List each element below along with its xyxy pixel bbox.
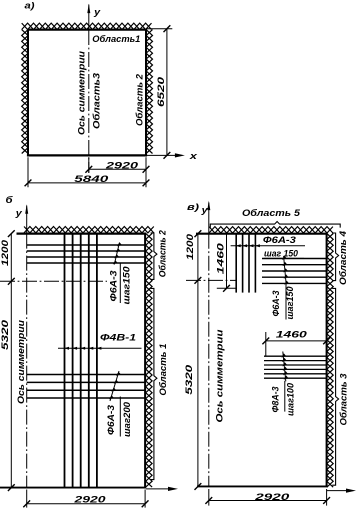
svg-text:5320: 5320 [184,365,194,395]
label shelf middle group (fig v) [285,285,287,320]
dimension line 1200-5320 (fig v) [197,234,199,487]
svg-text:1200: 1200 [185,234,195,260]
region bracket Область 2 (fig b) [151,233,157,280]
slab a outline [27,29,147,31]
svg-text:2920: 2920 [73,495,107,505]
leader line Ф4В-1 [58,347,142,349]
svg-text:5840: 5840 [74,174,109,184]
svg-text:Ф4В-1: Ф4В-1 [100,333,136,343]
svg-text:Ф6А-3: Ф6А-3 [263,235,296,245]
region bracket Область 5 (fig v) [210,222,340,228]
label shelf bottom group (fig b) [119,397,121,437]
slab b bottom edge [0,487,146,489]
horizontal rebar group top (fig b) [27,244,145,246]
slab a left edge hatch [22,30,28,154]
axis y (fig b) [26,206,28,234]
svg-text:шаг150: шаг150 [121,267,131,305]
svg-text:Область3: Область3 [92,73,102,129]
dimension 1460 horizontal (fig v) [266,340,327,342]
dimension line 1200-5320 (fig b) [10,234,12,488]
svg-text:Область1: Область1 [92,34,140,44]
dimension 1460 vertical line (fig v) [226,234,228,289]
svg-text:Область 1: Область 1 [158,344,168,396]
slab b right edge [144,233,146,488]
axis x (fig b) [146,488,174,490]
svg-text:у: у [93,6,101,17]
slab v symmetry axis edge [208,234,210,487]
leader line vertical group (fig v) [231,245,305,247]
svg-text:у: у [15,207,23,218]
label shelf bottom group (fig v) [284,381,286,412]
svg-text:Ф6А-3: Ф6А-3 [271,291,281,317]
slab b top edge [17,233,147,235]
svg-text:Область 5: Область 5 [242,208,301,218]
svg-text:5320: 5320 [0,320,10,350]
svg-text:шаг100: шаг100 [285,383,295,416]
slab v top edge [196,233,328,235]
svg-text:Область 2: Область 2 [135,73,145,126]
axis x (fig a) [146,154,182,156]
svg-text:а): а) [25,0,35,10]
slab b right edge hatch [146,233,152,487]
svg-text:Область 4: Область 4 [338,231,348,285]
svg-text:Ф6А-3: Ф6А-3 [109,271,119,302]
region boundary dash-dot (fig b) [0,280,107,282]
horizontal rebar group bottom (fig b) [27,374,145,376]
slab b symmetry axis edge [26,234,28,488]
dimension 2920 line (fig b) [27,503,145,505]
slab b top edge hatch [24,227,154,233]
region bracket Область 3 (fig v) [332,288,338,485]
slab a top edge hatch [22,23,152,29]
region bracket Область 4 (fig v) [332,233,338,281]
svg-text:1460: 1460 [276,329,308,339]
region bracket Область 1 (fig b) [151,288,157,479]
svg-text:6520: 6520 [156,76,166,107]
svg-text:шаг150: шаг150 [285,287,295,320]
svg-text:Ось симметрии: Ось симметрии [215,329,225,422]
svg-text:2920: 2920 [104,160,139,170]
extension lines bottom (fig a) [27,157,29,187]
svg-text:шаг 150: шаг 150 [264,248,299,258]
symmetry axis line (fig a) [88,30,90,173]
dimension 2920 line (fig v) [209,500,327,502]
svg-text:Ось симметрии: Ось симметрии [76,51,86,135]
svg-text:Ф6А-3: Ф6А-3 [106,405,116,435]
svg-text:Ось симметрии: Ось симметрии [16,320,26,404]
horizontal rebar group middle (fig v) [262,258,327,260]
leader diagonal top group (fig b) [114,243,119,265]
extension lines bottom (fig b) [26,490,28,508]
extension lines bottom (fig v) [208,489,210,506]
axis y (fig a) [88,5,90,31]
slab v bottom edge [197,485,328,487]
svg-text:у: у [200,204,208,215]
svg-text:Ф8А-3: Ф8А-3 [270,387,280,413]
vertical rebar group (fig v) [235,234,237,293]
region boundary dash-dot (fig v) [186,279,236,281]
leader diagonal bottom group (fig b) [110,371,119,401]
svg-text:x: x [189,150,198,161]
svg-text:1460: 1460 [216,243,226,274]
label shelf top group (fig b) [119,263,121,304]
svg-text:в): в) [187,201,199,212]
svg-text:2920: 2920 [254,492,291,502]
svg-text:Область 2: Область 2 [157,229,167,277]
label шаг 150 underline (fig v) [264,257,304,259]
leader diagonal middle group (fig v) [284,256,287,285]
axis y (fig v) [208,203,210,234]
vertical rebar group (fig b) [64,234,66,488]
extension line top right (fig a) [146,28,172,30]
leader diagonal bottom group (fig v) [283,352,286,382]
dimension 6520 line [166,29,168,156]
slab v right edge [326,233,328,487]
svg-text:шаг200: шаг200 [122,402,132,437]
slab v top edge hatch [209,227,333,233]
axis x (fig v) [327,490,353,492]
slab v right edge hatch [327,234,333,488]
dimension 5840 line [28,182,146,184]
slab a right edge hatch [146,30,152,154]
svg-text:1200: 1200 [0,240,10,266]
svg-text:Область 3: Область 3 [339,374,349,426]
horizontal rebar group bottom (fig v) [264,355,327,357]
dimension 2920 line (fig a) [89,168,146,170]
